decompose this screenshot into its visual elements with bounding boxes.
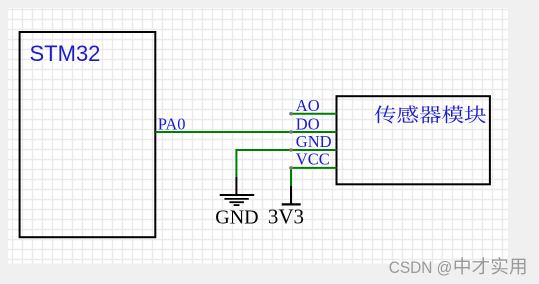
svg-text:AO: AO — [296, 96, 320, 115]
power port 3V3 (bar symbol) — [282, 186, 301, 204]
component U2 sensor module box (传感器模块) — [337, 96, 490, 184]
svg-text:DO: DO — [296, 114, 320, 133]
svg-text:PA0: PA0 — [158, 114, 186, 133]
ground symbol GND — [220, 177, 255, 205]
svg-text:VCC: VCC — [296, 150, 330, 169]
svg-text:GND: GND — [215, 207, 258, 229]
component U1 STM32 box — [20, 32, 156, 237]
wire VCC pin (horizontal) — [291, 167, 337, 169]
wire PA0 / DO net (horizontal) — [155, 131, 336, 133]
svg-text:3V3: 3V3 — [268, 205, 304, 229]
pin-end dot VCC — [289, 166, 293, 170]
svg-text:CSDN @: CSDN @ — [389, 258, 453, 277]
wire AO pin — [291, 113, 337, 115]
wire VCC vertical drop — [290, 167, 292, 186]
pin-end dot DO — [289, 130, 293, 134]
svg-text:STM32: STM32 — [30, 41, 101, 66]
wire GND vertical drop — [235, 149, 237, 177]
pin-end dot AO — [289, 112, 293, 116]
pin-end dot GND — [289, 148, 293, 152]
wire GND pin (horizontal) — [236, 149, 336, 151]
svg-text:GND: GND — [296, 132, 332, 151]
